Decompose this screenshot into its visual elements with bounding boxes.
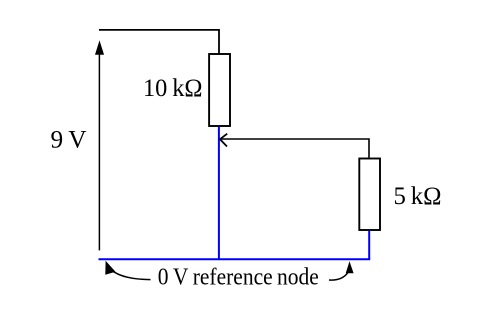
voltage arrow 9 V shaft — [98, 50, 100, 250]
resistor R2 5 kOhm body — [359, 159, 380, 231]
voltage arrow 9 V head — [95, 40, 104, 55]
svg-text:0 V reference node: 0 V reference node — [158, 263, 319, 290]
svg-text:9 V: 9 V — [51, 126, 87, 153]
wire R2 bottom pin (blue) — [368, 231, 370, 259]
svg-text:5 kΩ: 5 kΩ — [394, 183, 442, 210]
wire ground rail 0V (blue) — [99, 258, 371, 260]
right curved arrow head — [346, 261, 354, 273]
node arrow open head — [220, 134, 227, 147]
right curved arrow tail — [329, 273, 348, 280]
resistor R1 10 kOhm body — [209, 54, 230, 126]
node arrow (points at middle node) wire — [221, 139, 369, 158]
left curved arrow tail — [111, 270, 151, 280]
svg-text:10 kΩ: 10 kΩ — [143, 75, 203, 102]
wire top (source top to R1 top) — [99, 30, 219, 54]
left curved arrow head — [105, 261, 115, 275]
wire middle node (blue, R1 bottom to rail) — [218, 127, 220, 259]
